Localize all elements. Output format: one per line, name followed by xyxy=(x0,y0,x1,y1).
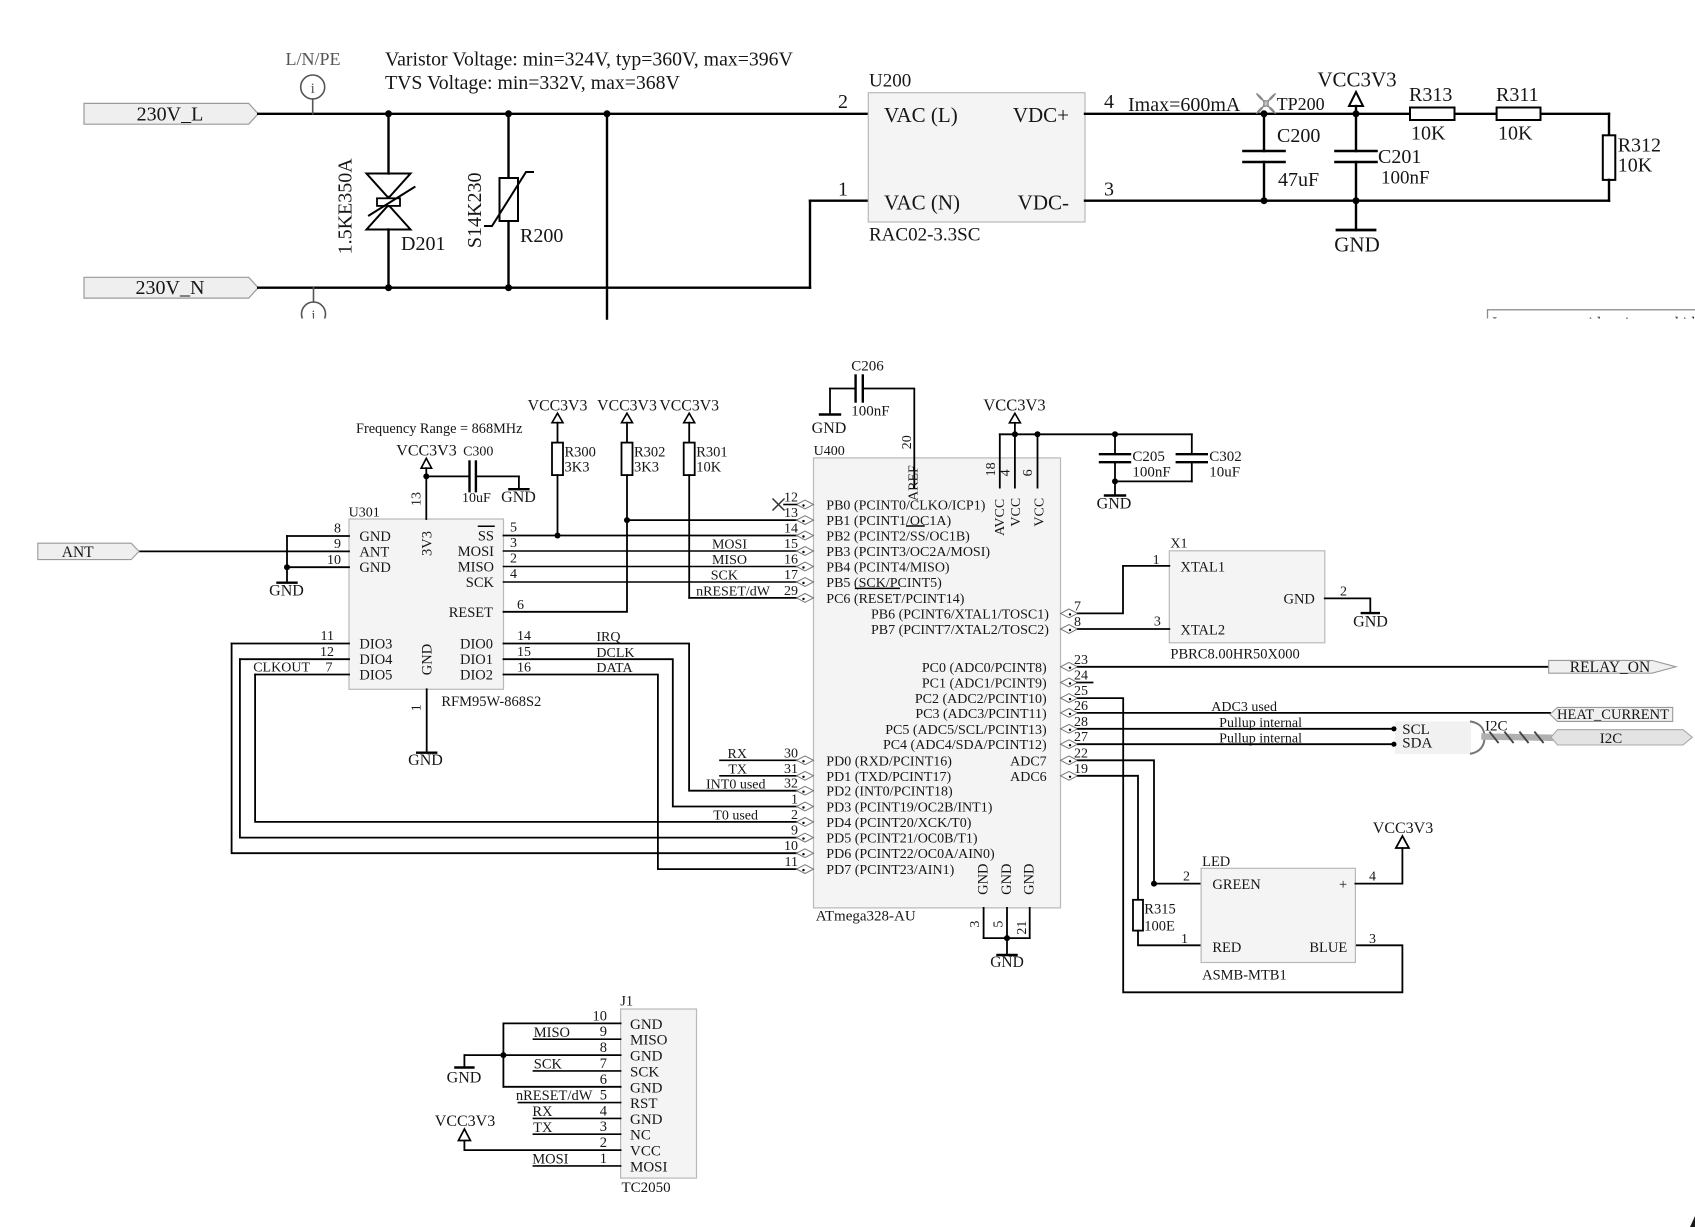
svg-text:10K: 10K xyxy=(1498,123,1533,145)
svg-text:C200: C200 xyxy=(1277,125,1320,147)
svg-text:Pullup internal: Pullup internal xyxy=(1219,732,1302,747)
svg-text:SDA: SDA xyxy=(1402,736,1432,752)
svg-text:PBRC8.00HR50X000: PBRC8.00HR50X000 xyxy=(1170,647,1299,663)
svg-text:VCC3V3: VCC3V3 xyxy=(1317,68,1396,92)
svg-text:1: 1 xyxy=(1153,553,1160,568)
svg-text:D201: D201 xyxy=(401,233,445,255)
svg-text:10: 10 xyxy=(327,553,341,568)
svg-text:3K3: 3K3 xyxy=(634,460,659,476)
svg-text:10uF: 10uF xyxy=(1209,464,1240,480)
svg-text:100nF: 100nF xyxy=(1381,168,1430,189)
svg-text:TC2050: TC2050 xyxy=(622,1180,671,1196)
svg-text:1.5KE350A: 1.5KE350A xyxy=(335,158,357,255)
svg-text:14: 14 xyxy=(517,629,531,644)
svg-text:R302: R302 xyxy=(634,445,665,461)
svg-text:TX: TX xyxy=(533,1120,553,1136)
svg-text:1: 1 xyxy=(791,793,798,808)
svg-text:L/N/PE: L/N/PE xyxy=(285,49,340,69)
svg-text:6: 6 xyxy=(517,598,524,613)
svg-text:VCC3V3: VCC3V3 xyxy=(1373,820,1433,837)
svg-text:VCC3V3: VCC3V3 xyxy=(435,1113,495,1130)
svg-text:Frequency Range = 868MHz: Frequency Range = 868MHz xyxy=(356,421,522,437)
svg-text:PB3 (PCINT3/OC2A/MOSI): PB3 (PCINT3/OC2A/MOSI) xyxy=(826,545,990,560)
svg-text:ANT: ANT xyxy=(62,544,94,561)
svg-text:GND: GND xyxy=(999,863,1015,894)
svg-text:2: 2 xyxy=(838,91,848,113)
svg-text:2: 2 xyxy=(600,1135,607,1151)
svg-text:4: 4 xyxy=(510,567,517,582)
svg-text:2: 2 xyxy=(1183,870,1190,885)
svg-text:GND: GND xyxy=(447,1070,482,1087)
svg-text:32: 32 xyxy=(784,777,798,792)
svg-text:GND: GND xyxy=(976,863,992,894)
svg-text:3: 3 xyxy=(600,1119,607,1135)
svg-text:MISO: MISO xyxy=(458,560,494,576)
svg-text:RFM95W-868S2: RFM95W-868S2 xyxy=(441,694,541,710)
svg-text:RELAY_ON: RELAY_ON xyxy=(1570,659,1650,676)
svg-text:3: 3 xyxy=(1104,179,1114,201)
svg-text:PC0 (ADC0/PCINT8): PC0 (ADC0/PCINT8) xyxy=(922,661,1047,676)
svg-text:28: 28 xyxy=(1074,715,1088,730)
svg-text:R312: R312 xyxy=(1618,135,1661,157)
svg-text:GREEN: GREEN xyxy=(1212,877,1261,893)
svg-text:GND: GND xyxy=(1022,863,1038,894)
svg-text:AREF: AREF xyxy=(907,465,922,501)
svg-text:SCK: SCK xyxy=(534,1057,563,1073)
svg-text:8: 8 xyxy=(334,522,341,537)
svg-text:VDC-: VDC- xyxy=(1018,191,1069,215)
svg-text:18: 18 xyxy=(984,462,999,476)
svg-text:XTAL1: XTAL1 xyxy=(1180,560,1225,576)
svg-text:LED: LED xyxy=(1202,854,1230,870)
svg-text:MOSI: MOSI xyxy=(630,1159,668,1175)
svg-text:DCLK: DCLK xyxy=(596,646,634,661)
svg-text:PB4 (PCINT4/MISO): PB4 (PCINT4/MISO) xyxy=(826,561,950,576)
svg-text:26: 26 xyxy=(1074,699,1088,714)
svg-text:ASMB-MTB1: ASMB-MTB1 xyxy=(1202,968,1287,984)
svg-text:PC4 (ADC4/SDA/PCINT12): PC4 (ADC4/SDA/PCINT12) xyxy=(883,738,1047,753)
svg-text:TP200: TP200 xyxy=(1277,94,1325,114)
svg-text:3K3: 3K3 xyxy=(565,460,590,476)
svg-text:9: 9 xyxy=(600,1024,607,1040)
svg-text:23: 23 xyxy=(1074,653,1088,668)
svg-text:15: 15 xyxy=(784,537,798,552)
svg-text:Varistor Voltage: min=324V, ty: Varistor Voltage: min=324V, typ=360V, ma… xyxy=(385,49,794,71)
svg-text:1: 1 xyxy=(410,704,425,711)
svg-text:6: 6 xyxy=(1021,469,1036,476)
svg-text:GND: GND xyxy=(359,560,390,576)
svg-text:RX: RX xyxy=(532,1104,553,1120)
svg-text:R313: R313 xyxy=(1409,84,1452,106)
svg-text:PC1 (ADC1/PCINT9): PC1 (ADC1/PCINT9) xyxy=(922,677,1047,692)
svg-text:R200: R200 xyxy=(520,225,563,247)
svg-text:16: 16 xyxy=(784,553,798,568)
svg-text:3: 3 xyxy=(1154,615,1161,630)
svg-text:Pullup internal: Pullup internal xyxy=(1219,716,1302,731)
svg-text:25: 25 xyxy=(1074,684,1088,699)
svg-text:ANT: ANT xyxy=(359,544,389,560)
svg-text:DIO2: DIO2 xyxy=(460,668,493,684)
svg-text:MISO: MISO xyxy=(712,553,747,568)
svg-text:GND: GND xyxy=(630,1017,663,1033)
svg-text:VAC (L): VAC (L) xyxy=(884,103,958,127)
svg-text:XTAL2: XTAL2 xyxy=(1180,622,1225,638)
svg-text:GND: GND xyxy=(1353,613,1388,630)
svg-text:U200: U200 xyxy=(869,71,911,92)
svg-text:DIO0: DIO0 xyxy=(460,637,493,653)
svg-text:I2C: I2C xyxy=(1600,731,1623,747)
svg-text:VCC: VCC xyxy=(630,1144,661,1160)
svg-text:GND: GND xyxy=(1097,496,1132,513)
svg-text:IRQ: IRQ xyxy=(596,630,620,645)
svg-text:4: 4 xyxy=(600,1103,608,1119)
svg-text:DIO4: DIO4 xyxy=(359,652,393,668)
svg-text:X1: X1 xyxy=(1170,537,1187,552)
svg-text:HEAT_CURRENT: HEAT_CURRENT xyxy=(1557,707,1669,723)
svg-text:30: 30 xyxy=(784,746,798,761)
svg-text:DATA: DATA xyxy=(596,661,633,676)
svg-text:GND: GND xyxy=(408,752,443,769)
svg-text:AVCC: AVCC xyxy=(993,499,1008,536)
svg-text:NC: NC xyxy=(630,1128,651,1144)
svg-text:14: 14 xyxy=(784,522,798,537)
svg-text:10: 10 xyxy=(784,839,798,854)
svg-text:VCC: VCC xyxy=(1033,498,1048,527)
svg-text:31: 31 xyxy=(784,762,798,777)
svg-text:ADC6: ADC6 xyxy=(1010,770,1047,785)
svg-text:ADC3 used: ADC3 used xyxy=(1211,700,1277,715)
svg-text:PD7 (PCINT23/AIN1): PD7 (PCINT23/AIN1) xyxy=(826,863,954,878)
svg-text:16: 16 xyxy=(517,661,531,676)
svg-text:29: 29 xyxy=(784,584,798,599)
svg-text:ATmega328-AU: ATmega328-AU xyxy=(816,908,916,924)
svg-text:1: 1 xyxy=(838,179,848,201)
svg-text:MISO: MISO xyxy=(630,1033,668,1049)
svg-text:S14K230: S14K230 xyxy=(464,173,486,249)
svg-text:10uF: 10uF xyxy=(462,491,491,506)
svg-text:C300: C300 xyxy=(463,445,493,460)
svg-text:8: 8 xyxy=(600,1040,607,1056)
svg-text:3: 3 xyxy=(1369,932,1376,947)
svg-text:7: 7 xyxy=(326,661,333,676)
svg-text:8: 8 xyxy=(1074,615,1081,630)
svg-text:27: 27 xyxy=(1074,730,1088,745)
svg-text:PC6 (RESET/PCINT14): PC6 (RESET/PCINT14) xyxy=(826,592,964,607)
svg-text:R311: R311 xyxy=(1496,84,1539,106)
svg-text:17: 17 xyxy=(784,568,798,583)
svg-text:GND: GND xyxy=(359,529,390,545)
svg-text:10K: 10K xyxy=(1618,155,1653,177)
svg-text:3: 3 xyxy=(510,536,517,551)
svg-text:+: + xyxy=(1339,877,1347,893)
svg-text:PB6 (PCINT6/XTAL1/TOSC1): PB6 (PCINT6/XTAL1/TOSC1) xyxy=(871,607,1049,622)
svg-text:RESET: RESET xyxy=(449,605,493,621)
svg-text:47uF: 47uF xyxy=(1278,169,1319,191)
svg-text:4: 4 xyxy=(998,469,1013,476)
svg-text:RED: RED xyxy=(1212,940,1241,956)
svg-text:ADC7: ADC7 xyxy=(1010,754,1047,769)
svg-text:3V3: 3V3 xyxy=(420,531,436,556)
svg-text:PD4 (PCINT20/XCK/T0): PD4 (PCINT20/XCK/T0) xyxy=(826,816,971,831)
svg-text:C302: C302 xyxy=(1209,449,1242,465)
svg-text:22: 22 xyxy=(1074,746,1088,761)
svg-text:U400: U400 xyxy=(814,444,845,459)
svg-text:PB1 (PCINT1/OC1A): PB1 (PCINT1/OC1A) xyxy=(826,514,951,529)
svg-text:PD2 (INT0/PCINT18): PD2 (INT0/PCINT18) xyxy=(826,785,953,800)
svg-text:C206: C206 xyxy=(851,358,884,374)
svg-text:GND: GND xyxy=(1283,592,1314,608)
svg-text:BLUE: BLUE xyxy=(1309,940,1347,956)
svg-text:PC5 (ADC5/SCL/PCINT13): PC5 (ADC5/SCL/PCINT13) xyxy=(885,723,1047,738)
svg-text:9: 9 xyxy=(791,824,798,839)
svg-text:10K: 10K xyxy=(696,460,722,476)
svg-text:nRESET/dW: nRESET/dW xyxy=(516,1088,593,1104)
svg-text:Imax=600mA: Imax=600mA xyxy=(1128,94,1241,116)
svg-text:R300: R300 xyxy=(565,445,596,461)
svg-text:GND: GND xyxy=(630,1049,663,1065)
svg-text:MOSI: MOSI xyxy=(458,544,494,560)
svg-text:RAC02-3.3SC: RAC02-3.3SC xyxy=(869,225,980,246)
svg-text:VCC3V3: VCC3V3 xyxy=(396,443,456,460)
svg-text:PD6 (PCINT22/OC0A/AIN0): PD6 (PCINT22/OC0A/AIN0) xyxy=(826,847,995,862)
svg-text:2: 2 xyxy=(791,808,798,823)
svg-text:2: 2 xyxy=(510,552,517,567)
svg-text:21: 21 xyxy=(1015,921,1030,935)
svg-text:10: 10 xyxy=(593,1008,608,1024)
svg-text:GND: GND xyxy=(420,644,436,675)
svg-text:PD3 (PCINT19/OC2B/INT1): PD3 (PCINT19/OC2B/INT1) xyxy=(826,801,992,816)
svg-text:SCK: SCK xyxy=(711,569,738,584)
svg-text:SCK: SCK xyxy=(466,575,495,591)
svg-text:5: 5 xyxy=(510,521,517,536)
svg-text:10K: 10K xyxy=(1411,123,1446,145)
svg-text:DIO5: DIO5 xyxy=(359,668,392,684)
svg-text:100E: 100E xyxy=(1144,919,1175,935)
svg-text:9: 9 xyxy=(334,537,341,552)
svg-text:13: 13 xyxy=(410,492,425,506)
svg-text:MOSI: MOSI xyxy=(532,1152,568,1168)
svg-text:PD1 (TXD/PCINT17): PD1 (TXD/PCINT17) xyxy=(826,770,951,785)
svg-text:CLKOUT: CLKOUT xyxy=(253,661,310,676)
svg-text:PC3 (ADC3/PCINT11): PC3 (ADC3/PCINT11) xyxy=(915,707,1047,722)
svg-text:12: 12 xyxy=(320,645,334,660)
svg-text:GND: GND xyxy=(990,954,1024,971)
svg-text:SCK: SCK xyxy=(630,1064,659,1080)
svg-text:4: 4 xyxy=(1369,870,1376,885)
svg-text:5: 5 xyxy=(600,1088,607,1104)
svg-text:i: i xyxy=(311,81,315,97)
svg-text:PC2 (ADC2/PCINT10): PC2 (ADC2/PCINT10) xyxy=(915,692,1047,707)
svg-text:VCC3V3: VCC3V3 xyxy=(983,396,1045,415)
svg-text:U301: U301 xyxy=(349,506,380,521)
svg-text:C201: C201 xyxy=(1378,146,1421,168)
svg-text:3: 3 xyxy=(968,921,983,928)
svg-text:4: 4 xyxy=(1104,91,1114,113)
svg-text:DIO3: DIO3 xyxy=(359,637,392,653)
svg-text:20: 20 xyxy=(900,435,915,449)
svg-text:R315: R315 xyxy=(1144,902,1175,918)
svg-text:T0 used: T0 used xyxy=(713,809,758,824)
svg-text:GND: GND xyxy=(269,582,304,599)
svg-text:2: 2 xyxy=(1340,584,1347,599)
svg-text:11: 11 xyxy=(785,855,798,870)
svg-text:PB7 (PCINT7/XTAL2/TOSC2): PB7 (PCINT7/XTAL2/TOSC2) xyxy=(871,623,1049,638)
svg-text:C205: C205 xyxy=(1132,449,1165,465)
svg-text:GND: GND xyxy=(501,489,536,506)
svg-text:PD0 (RXD/PCINT16): PD0 (RXD/PCINT16) xyxy=(826,754,952,769)
svg-text:7: 7 xyxy=(600,1056,607,1072)
svg-text:DIO1: DIO1 xyxy=(460,652,493,668)
svg-text:TVS Voltage: min=332V, max=368: TVS Voltage: min=332V, max=368V xyxy=(385,72,681,94)
svg-text:R301: R301 xyxy=(696,445,727,461)
svg-text:6: 6 xyxy=(600,1072,607,1088)
svg-text:19: 19 xyxy=(1074,762,1088,777)
svg-text:1: 1 xyxy=(1181,932,1188,947)
svg-text:13: 13 xyxy=(784,506,798,521)
svg-text:MISO: MISO xyxy=(534,1025,570,1041)
svg-text:GND: GND xyxy=(630,1080,663,1096)
svg-text:VCC: VCC xyxy=(1009,498,1024,527)
svg-text:PB2 (PCINT2/SS/OC1B): PB2 (PCINT2/SS/OC1B) xyxy=(826,530,970,545)
svg-text:VAC (N): VAC (N) xyxy=(884,191,960,215)
svg-text:VDC+: VDC+ xyxy=(1013,103,1069,127)
svg-text:MOSI: MOSI xyxy=(712,538,747,553)
svg-text:RST: RST xyxy=(630,1096,658,1112)
svg-text:100nF: 100nF xyxy=(851,404,889,420)
svg-text:SS: SS xyxy=(478,529,494,545)
svg-text:5: 5 xyxy=(992,921,1007,928)
svg-text:7: 7 xyxy=(1074,599,1081,614)
svg-text:24: 24 xyxy=(1074,669,1088,684)
svg-text:GND: GND xyxy=(630,1112,663,1128)
svg-text:1: 1 xyxy=(600,1151,607,1167)
svg-text:230V_N: 230V_N xyxy=(136,277,205,299)
svg-text:J1: J1 xyxy=(620,994,633,1010)
svg-text:INT0 used: INT0 used xyxy=(706,778,766,793)
svg-text:12: 12 xyxy=(784,491,798,506)
svg-text:15: 15 xyxy=(517,645,531,660)
svg-text:11: 11 xyxy=(321,629,334,644)
svg-text:100nF: 100nF xyxy=(1132,464,1170,480)
svg-text:GND: GND xyxy=(812,420,847,437)
svg-text:GND: GND xyxy=(1334,233,1380,257)
svg-text:230V_L: 230V_L xyxy=(137,103,204,125)
svg-text:PD5 (PCINT21/OC0B/T1): PD5 (PCINT21/OC0B/T1) xyxy=(826,832,978,847)
